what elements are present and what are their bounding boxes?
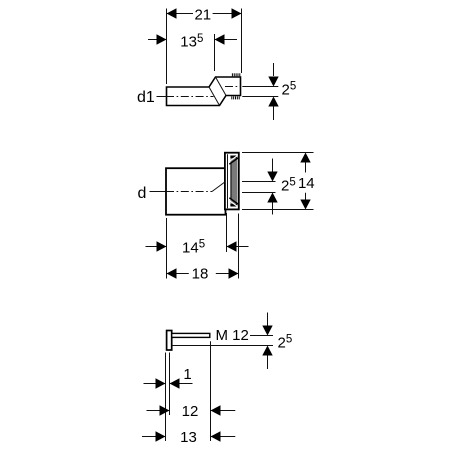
svg-text:M 12: M 12 [216, 327, 249, 344]
svg-text:d: d [138, 185, 147, 202]
svg-text:21: 21 [194, 7, 211, 24]
svg-text:13: 13 [180, 429, 197, 446]
svg-text:18: 18 [192, 266, 209, 283]
svg-text:d1: d1 [137, 89, 155, 106]
svg-text:14: 14 [298, 175, 315, 192]
svg-text:1: 1 [183, 366, 191, 383]
svg-text:12: 12 [182, 403, 199, 420]
